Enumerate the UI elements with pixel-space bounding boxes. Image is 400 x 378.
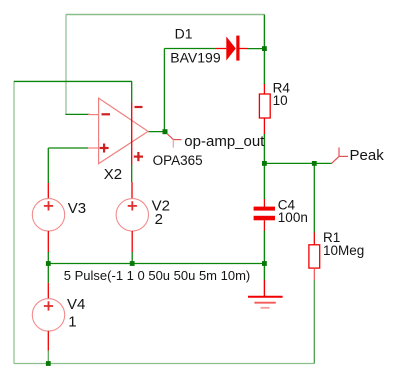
node junction peak R1 <box>312 161 317 166</box>
svg-text:op-amp_out: op-amp_out <box>184 133 265 150</box>
wire C4 top <box>263 163 265 199</box>
svg-text:X2: X2 <box>104 166 122 183</box>
wire R4 bottom to peak node <box>263 134 265 164</box>
wire cathode node vertical <box>263 15 265 49</box>
voltage source V3 <box>32 183 64 252</box>
svg-text:10: 10 <box>273 93 288 108</box>
wire ground bus horizontal <box>48 263 264 265</box>
wire left rail top horizontal <box>14 80 132 82</box>
ground <box>248 280 283 308</box>
wire V3 bottom <box>47 252 49 264</box>
wire C4 bottom <box>263 231 265 264</box>
svg-text:V4: V4 <box>67 296 85 313</box>
svg-text:5 Pulse(-1 1 0 50u 50u 5m 10m): 5 Pulse(-1 1 0 50u 50u 5m 10m) <box>64 268 250 283</box>
voltage source V4 <box>32 283 64 351</box>
wire V2 bottom <box>131 252 133 264</box>
wire diode anode vertical <box>163 49 165 132</box>
wire ground stem green <box>263 264 265 281</box>
wire R1 bottom vertical <box>313 280 315 364</box>
svg-text:OPA365: OPA365 <box>153 153 203 168</box>
node junction bus V2 <box>130 261 135 266</box>
wire op-amp output <box>148 131 165 133</box>
node Peak port marker <box>332 148 349 164</box>
wire V4 top <box>47 264 49 283</box>
wire diode cathode horizontal <box>247 48 264 50</box>
resistor R1 <box>309 232 320 280</box>
svg-text:100n: 100n <box>278 210 308 225</box>
node junction bus V3 <box>46 261 51 266</box>
op-amp X2 <box>88 98 148 164</box>
wire peak node horizontal <box>264 162 331 164</box>
node junction peak left <box>262 161 267 166</box>
svg-text:Peak: Peak <box>350 147 385 164</box>
wire V2 top vertical upper <box>131 81 133 103</box>
wire to inverting input <box>65 113 90 115</box>
node junction op-amp_out <box>163 129 168 134</box>
node op-amp_out port marker <box>168 134 182 148</box>
svg-text:1: 1 <box>68 314 76 331</box>
wire bottom rail horizontal <box>14 363 314 365</box>
svg-text:2: 2 <box>155 211 163 228</box>
svg-text:10Meg: 10Meg <box>323 243 364 258</box>
wire R1 top vertical <box>313 163 315 232</box>
voltage source V2 <box>116 182 148 252</box>
wire V2 top vertical lower <box>131 164 133 182</box>
resistor R4 <box>259 84 270 134</box>
wire feedback left vertical <box>65 15 67 115</box>
svg-text:BAV199: BAV199 <box>170 49 221 65</box>
diode D1 <box>216 36 248 61</box>
wire V3 top vertical <box>47 148 49 183</box>
wire top feedback horizontal (cathode node to inverting input) <box>66 14 265 16</box>
svg-text:V3: V3 <box>68 200 86 217</box>
wire R4 top <box>263 49 265 85</box>
node junction bus ground <box>262 261 267 266</box>
wire noninverting input horizontal <box>48 147 88 149</box>
wire diode anode horizontal <box>164 48 216 50</box>
svg-text:D1: D1 <box>175 26 193 42</box>
node junction diode cathode <box>262 46 267 51</box>
capacitor C4 <box>254 199 275 231</box>
wire left rail vertical <box>13 81 15 364</box>
wire V4 bottom <box>47 351 49 364</box>
node junction bottom V4 <box>46 361 51 366</box>
